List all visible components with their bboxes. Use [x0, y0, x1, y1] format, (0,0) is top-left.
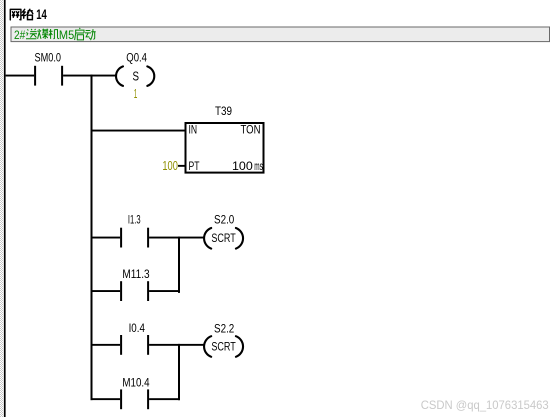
wire: contact I1.3 to coil S2.0 — [149, 237, 204, 239]
PT pin tick — [178, 165, 185, 167]
svg-text:T39: T39 — [215, 104, 232, 118]
svg-text:Q0.4: Q0.4 — [126, 51, 147, 65]
contact I0.4 — [120, 321, 149, 355]
coil S2.0 (SCRT) — [204, 212, 243, 248]
network comment text "2#送煤机M5启动" — [14, 28, 74, 42]
branch wire (vertical) I0.4/M10.4 — [178, 344, 180, 400]
svg-text:S2.2: S2.2 — [214, 321, 235, 335]
svg-text:PT: PT — [189, 159, 200, 173]
svg-text:1: 1 — [134, 86, 138, 101]
contact M11.3 — [120, 267, 150, 301]
wire: bus to contact I1.3 — [93, 237, 121, 239]
svg-text:CSDN @qq_1076315463: CSDN @qq_1076315463 — [421, 398, 549, 412]
contact I1.3 — [120, 212, 149, 247]
wire: bus to timer T39 IN pin — [93, 130, 186, 132]
svg-text:14: 14 — [36, 7, 47, 22]
timer T39 (TON) box — [186, 104, 264, 173]
wire: contact I0.4 to coil S2.2 — [149, 344, 204, 346]
svg-text:I1.3: I1.3 — [128, 212, 141, 226]
svg-text:IN: IN — [189, 123, 198, 137]
wire: contact SM0.0 to coil Q0.4 — [63, 75, 116, 77]
network comment bar — [11, 27, 550, 42]
wire: contact M10.4 to branch — [149, 398, 180, 400]
left power rail — [4, 0, 6, 417]
wire: bus to contact I0.4 — [93, 344, 121, 346]
contact SM0.0 — [34, 51, 63, 86]
svg-text:SCRT: SCRT — [211, 339, 236, 353]
network header "网络 14" — [10, 9, 33, 20]
svg-text:S: S — [133, 70, 140, 84]
svg-text:S2.0: S2.0 — [214, 212, 235, 226]
coil S2.2 (SCRT) — [204, 321, 243, 356]
svg-text:ms: ms — [254, 159, 263, 173]
svg-text:I0.4: I0.4 — [129, 321, 146, 335]
wire: bus to contact M11.3 — [93, 290, 121, 292]
svg-text:100: 100 — [162, 158, 178, 173]
svg-text:100: 100 — [232, 159, 253, 173]
main bus wire (vertical, rung junction down) — [91, 75, 93, 401]
svg-text:M5: M5 — [59, 28, 75, 42]
coil Q0.4 (S), set coil — [116, 51, 154, 86]
svg-text:SCRT: SCRT — [211, 231, 236, 245]
branch wire (vertical) I1.3/M11.3 — [178, 237, 180, 293]
svg-text:SM0.0: SM0.0 — [35, 51, 62, 65]
svg-text:TON: TON — [241, 123, 261, 137]
svg-text:M10.4: M10.4 — [122, 376, 149, 390]
svg-text:2#: 2# — [14, 28, 26, 42]
wire: contact M11.3 to branch — [149, 290, 180, 292]
contact M10.4 — [120, 376, 150, 410]
wire: left rail to contact SM0.0 — [6, 75, 34, 77]
svg-text:M11.3: M11.3 — [122, 267, 149, 281]
wire: bus to contact M10.4 — [93, 398, 121, 400]
